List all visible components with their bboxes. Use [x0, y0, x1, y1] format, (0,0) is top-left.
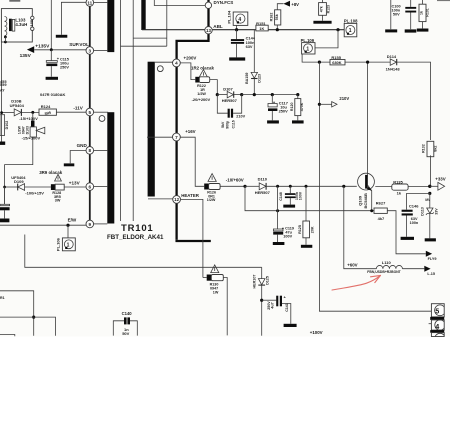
node +33V [428, 185, 431, 188]
svg-text:1: 1 [349, 28, 352, 34]
wire bottom-left stub [0, 335, 15, 337]
wire heater from pin 12 [181, 199, 203, 277]
svg-text:20K: 20K [311, 226, 315, 233]
svg-text:C141: C141 [285, 303, 289, 312]
svg-text:R120: R120 [290, 103, 294, 112]
svg-text:-11V: -11V [73, 105, 83, 110]
inductor L103 core bar [9, 19, 12, 31]
svg-text:4: 4 [435, 322, 439, 331]
svg-text:R124: R124 [41, 104, 51, 109]
svg-text:50V: 50V [393, 13, 400, 17]
pin 13 [205, 27, 212, 34]
wire pin 3 stub [94, 50, 108, 52]
wire pin 8 stub [94, 149, 108, 151]
inductor L103 shield plate [12, 19, 15, 31]
svg-text:R1: R1 [0, 296, 5, 300]
node R155 left / 210V line [318, 61, 321, 64]
wire D103 bottom to left [5, 137, 33, 204]
node L103 bottom [4, 36, 7, 39]
arrow +135V [27, 46, 34, 53]
svg-text:3W: 3W [55, 199, 61, 203]
top-right edge mark [437, 0, 450, 1]
svg-text:+200V: +200V [184, 56, 197, 61]
svg-text:13: 13 [206, 28, 211, 33]
node D108 left [0, 111, 3, 114]
node collector / D114 [366, 61, 369, 64]
svg-text:+135V: +135V [35, 44, 50, 50]
svg-text:R627: R627 [376, 201, 386, 206]
wire +60V drop to L110 row [344, 186, 377, 268]
resistor R125 [305, 186, 307, 221]
node 210V arrow [318, 103, 321, 106]
wire D114 to R132 [397, 62, 431, 140]
svg-text:9: 9 [89, 222, 92, 227]
svg-text:6: 6 [89, 184, 92, 189]
svg-text:AY: AY [0, 88, 5, 92]
svg-text:R123: R123 [327, 5, 331, 13]
connector cell 3 (cut) [431, 333, 445, 344]
svg-text:FLY9: FLY9 [428, 257, 437, 261]
svg-text:C140: C140 [122, 311, 133, 316]
pin 7 [173, 133, 181, 141]
connector bottom-right cell 5 [431, 304, 445, 317]
arrow L.15 [424, 266, 430, 272]
component D102 at left edge [0, 115, 5, 136]
svg-text:8: 8 [89, 148, 92, 153]
svg-text:5: 5 [89, 110, 92, 115]
svg-text:4u7: 4u7 [270, 302, 274, 308]
svg-text:250V: 250V [267, 301, 271, 310]
svg-text:DYN.FCS: DYN.FCS [214, 0, 234, 5]
svg-text:D103: D103 [25, 126, 29, 134]
svg-text:HER507: HER507 [255, 190, 271, 195]
svg-text:1k: 1k [419, 11, 423, 15]
pin 8 [86, 147, 94, 155]
pin 6 [86, 183, 94, 191]
svg-text:1/2W: 1/2W [207, 198, 216, 202]
svg-text:UF5404: UF5404 [10, 103, 25, 108]
transformer TR101 core line right [132, 0, 134, 221]
node D123 bottom [253, 93, 256, 96]
svg-text:1k: 1k [397, 191, 402, 196]
transformer TR101 secondary winding bar [148, 62, 155, 197]
svg-text:680K: 680K [332, 60, 341, 65]
svg-text:L.15: L.15 [427, 272, 435, 276]
diode D107 HER507 [217, 94, 227, 96]
svg-text:559: 559 [0, 82, 7, 87]
svg-text:+100V: +100V [310, 330, 323, 335]
arrow +33V [430, 185, 438, 187]
svg-text:R101: R101 [426, 8, 430, 16]
electrolytic cap left edge [4, 187, 6, 204]
svg-text:1R2 olacak: 1R2 olacak [191, 65, 215, 70]
svg-text:C146: C146 [409, 204, 419, 209]
transformer TR101 primary winding bar (lower segment) [107, 112, 114, 223]
node C144 [235, 28, 238, 31]
svg-text:PL.106: PL.106 [55, 237, 60, 251]
safety resistor D103 [32, 112, 34, 120]
svg-text:R132: R132 [422, 144, 426, 153]
svg-text:D125: D125 [265, 276, 269, 285]
svg-text:+8V: +8V [291, 2, 299, 7]
wire pin 7 stub [147, 136, 173, 138]
node D107 anode [216, 93, 219, 96]
diode D125 HER107 [261, 267, 263, 278]
pin (top) [205, 2, 211, 8]
transistor Q109 [358, 173, 375, 190]
switch contact lower [31, 27, 34, 30]
wire PL104 to bus [236, 25, 238, 29]
svg-text:-15/+100V: -15/+100V [22, 135, 41, 140]
svg-text:1: 1 [306, 46, 309, 52]
svg-text:63V: 63V [246, 44, 253, 49]
svg-text:7: 7 [175, 135, 178, 140]
inductor L103 box [1, 9, 32, 42]
pin 11 [86, 0, 94, 6]
svg-text:210V: 210V [339, 96, 349, 101]
node +135V / C115 [50, 48, 53, 51]
svg-text:50V: 50V [122, 331, 129, 336]
svg-text:100n: 100n [410, 221, 419, 225]
resistor R162 [277, 4, 283, 10]
connector separator [430, 317, 444, 320]
wire bottom-left branch 2 [0, 317, 56, 336]
svg-text:-15/+100V: -15/+100V [19, 116, 38, 121]
wire R127 to FLY9 [387, 211, 426, 254]
svg-text:D114: D114 [387, 54, 397, 59]
svg-text:BA159: BA159 [245, 73, 249, 84]
wire shield rung lower [121, 45, 167, 47]
pin 4 [173, 59, 181, 67]
svg-text:E/W: E/W [68, 217, 77, 222]
svg-text:135V: 135V [20, 53, 32, 59]
wire from top edge to +135V node [50, 0, 52, 50]
svg-text:900p: 900p [226, 121, 230, 129]
wire pin 4 stub [155, 61, 173, 63]
svg-text:1/2W: 1/2W [197, 92, 206, 96]
connector PL106 [67, 225, 69, 238]
node emitter on rail [370, 209, 373, 212]
svg-text:D109: D109 [14, 179, 24, 184]
svg-text:8k2: 8k2 [433, 146, 437, 152]
wire pin 5 stub [94, 111, 108, 113]
capacitor C146 [407, 193, 430, 209]
svg-text:BC546B: BC546B [363, 193, 368, 208]
resistor R132 [427, 141, 434, 156]
node +60V drop [342, 185, 345, 188]
wire shield line [166, 0, 168, 46]
node C148 top [289, 185, 292, 188]
arrow 210V [319, 103, 331, 105]
svg-text:33V: 33V [434, 208, 438, 215]
svg-text:+33V: +33V [435, 177, 445, 182]
inductor L110 [376, 265, 402, 268]
svg-text:1K: 1K [259, 26, 264, 31]
polarity dot primary [99, 116, 105, 122]
resistor R123 47k [321, 0, 323, 3]
wire D107 output row [242, 94, 298, 96]
svg-text:3: 3 [89, 48, 92, 53]
wire top pin to left [154, 0, 205, 6]
resistor R135 [375, 185, 392, 187]
svg-text:56k: 56k [275, 14, 279, 20]
svg-text:D123: D123 [258, 74, 262, 83]
svg-text:GND: GND [77, 143, 88, 148]
svg-text:4: 4 [175, 61, 178, 66]
wire pin 7 to R126 [180, 137, 204, 186]
warning triangle R128 [55, 174, 62, 181]
node R125 top [305, 185, 308, 188]
arrow FLY9 [426, 251, 432, 257]
svg-text:4: 4 [238, 17, 241, 23]
svg-text:HER507: HER507 [222, 98, 238, 103]
wire bottom-left branch 1 [0, 291, 34, 336]
wire E/W row [0, 224, 86, 226]
svg-text:+16V: +16V [185, 129, 195, 134]
wire thick ABL drop from top [207, 0, 209, 27]
pin 9 [86, 220, 94, 228]
node D108 / D103 [31, 111, 34, 114]
svg-text:ABL: ABL [213, 24, 223, 29]
svg-text:+60V: +60V [347, 262, 357, 267]
svg-text:-10/+60V: -10/+60V [226, 177, 244, 182]
wire 210V line long vertical [319, 62, 431, 311]
svg-text:100V: 100V [283, 234, 292, 238]
svg-text:-100/+15V: -100/+15V [25, 190, 44, 195]
ground under pin 11 [56, 35, 68, 38]
svg-text:C116: C116 [232, 120, 236, 128]
wire left edge down from L103 [4, 37, 6, 42]
wire thick below pin 13 [177, 34, 209, 240]
wire PL108 to PL109 [315, 30, 338, 48]
svg-text:SUP.VOL: SUP.VOL [69, 42, 89, 47]
wire pin 9 stub [94, 223, 108, 225]
node PL108 on bus [336, 28, 339, 31]
svg-text:250V: 250V [279, 109, 288, 114]
svg-text:470K: 470K [300, 102, 304, 111]
capacitor C117 [271, 93, 274, 96]
svg-text:47k: 47k [319, 6, 323, 12]
ground bar left edge [0, 142, 5, 145]
wire pin 6 stub [94, 186, 107, 188]
ground under C115 [46, 77, 58, 80]
inductor L103 coil [5, 17, 7, 36]
svg-text:11: 11 [87, 1, 92, 6]
node D107 cathode [240, 93, 243, 96]
wire +60V rail [245, 186, 374, 210]
fusible resistor R126 [204, 184, 208, 190]
svg-text:1: 1 [67, 243, 70, 249]
capacitor C148 [289, 186, 291, 193]
fusible resistor R122 [195, 77, 199, 83]
pin 12 [173, 196, 181, 204]
svg-text:FBT_ELDOR_AK41: FBT_ELDOR_AK41 [107, 234, 164, 241]
connector separator [430, 330, 444, 333]
svg-text:R125: R125 [298, 225, 302, 234]
svg-text:12: 12 [174, 197, 179, 202]
wire ABL bus [142, 29, 338, 31]
svg-text:D110: D110 [258, 177, 268, 182]
transformer TR101 core line left [120, 0, 122, 221]
svg-text:D113: D113 [420, 207, 424, 216]
warning triangle R126 [208, 174, 216, 182]
wire ABL bus right segment [338, 29, 344, 31]
svg-text:4.3uH: 4.3uH [15, 22, 27, 27]
warning triangle R122 [199, 70, 207, 78]
wire PL109 bottom to R155 row [302, 54, 330, 62]
svg-text:100V: 100V [299, 191, 303, 200]
wire left pin column [89, 0, 91, 224]
wire pin 4 to R122 [180, 63, 195, 80]
warning triangle R130 [211, 265, 219, 273]
wire thick bottom bracket [177, 240, 211, 241]
fusible resistor R130 [203, 277, 207, 279]
svg-text:-20/+200V: -20/+200V [192, 97, 211, 102]
svg-text:HER107: HER107 [253, 275, 257, 289]
svg-text:5: 5 [435, 307, 439, 316]
red hand-drawn arrow [332, 275, 381, 290]
svg-text:5kV: 5kV [221, 121, 225, 128]
diode D123 BA159 [253, 30, 255, 72]
svg-text:1N4148: 1N4148 [386, 66, 401, 71]
node C146 branch [428, 192, 431, 195]
diode D110 HER507 [245, 185, 259, 187]
resistor R127 [374, 208, 387, 213]
wire long feed line to D125 [25, 235, 262, 268]
fusible resistor R128 [51, 184, 55, 190]
wire top-right line to ground [390, 0, 392, 29]
node E/W PL106 [66, 224, 69, 227]
transformer TR101 primary winding bar (upper segment) [107, 0, 114, 52]
svg-text:1W: 1W [213, 291, 219, 295]
capacitor C115 [50, 50, 52, 61]
connector cell 4 [429, 320, 446, 331]
svg-text:PL.104: PL.104 [226, 10, 231, 24]
resistor R120 [296, 93, 299, 96]
svg-text:TR101: TR101 [121, 223, 154, 234]
svg-text:FBN,USDB+R2BONT: FBN,USDB+R2BONT [367, 270, 401, 274]
svg-text:210V: 210V [236, 115, 245, 119]
text fragment cut at top edge [9, 0, 20, 2]
wire pin 8 to ground [70, 151, 86, 164]
svg-text:+13V: +13V [69, 181, 81, 186]
svg-text:L110: L110 [382, 260, 392, 265]
svg-text:PL.108: PL.108 [344, 18, 358, 23]
pin 5 [86, 108, 94, 116]
capacitor C144 [236, 30, 238, 39]
node bottom-left [32, 316, 35, 319]
wire pin 11 stub [94, 2, 108, 4]
polarity dot secondary [157, 66, 163, 72]
capacitor C119 [277, 186, 279, 229]
svg-text:C148: C148 [279, 192, 283, 201]
svg-text:4k7: 4k7 [378, 216, 385, 221]
svg-text:047R 0180AK: 047R 0180AK [40, 92, 65, 97]
switch contact upper [31, 16, 34, 19]
node R126 / D110 / +60V rail [243, 185, 246, 188]
svg-text:3R9 olacak: 3R9 olacak [39, 170, 63, 175]
wire pin 12 stub [148, 198, 173, 200]
ground under pin 8 [64, 163, 75, 166]
capacitor C116 snubber loop [217, 95, 227, 114]
node C119 top [276, 185, 279, 188]
pin 3 [86, 47, 94, 55]
capacitor C141 [262, 299, 277, 301]
svg-text:HEATER: HEATER [181, 193, 200, 198]
wire pin 11 to ground [61, 2, 86, 35]
wire +135V to pin 3 [34, 49, 86, 51]
wire shield rung upper [133, 37, 167, 39]
node D125 / C141 [260, 299, 263, 302]
svg-text:D102: D102 [5, 121, 9, 130]
svg-text:D107: D107 [223, 87, 233, 92]
node C119 on rail [276, 209, 279, 212]
svg-text:250V: 250V [60, 65, 69, 69]
transformer TR101 auxiliary winding bar (top) [141, 0, 145, 30]
resistor R101 [422, 0, 424, 4]
svg-text:R162: R162 [270, 13, 274, 22]
